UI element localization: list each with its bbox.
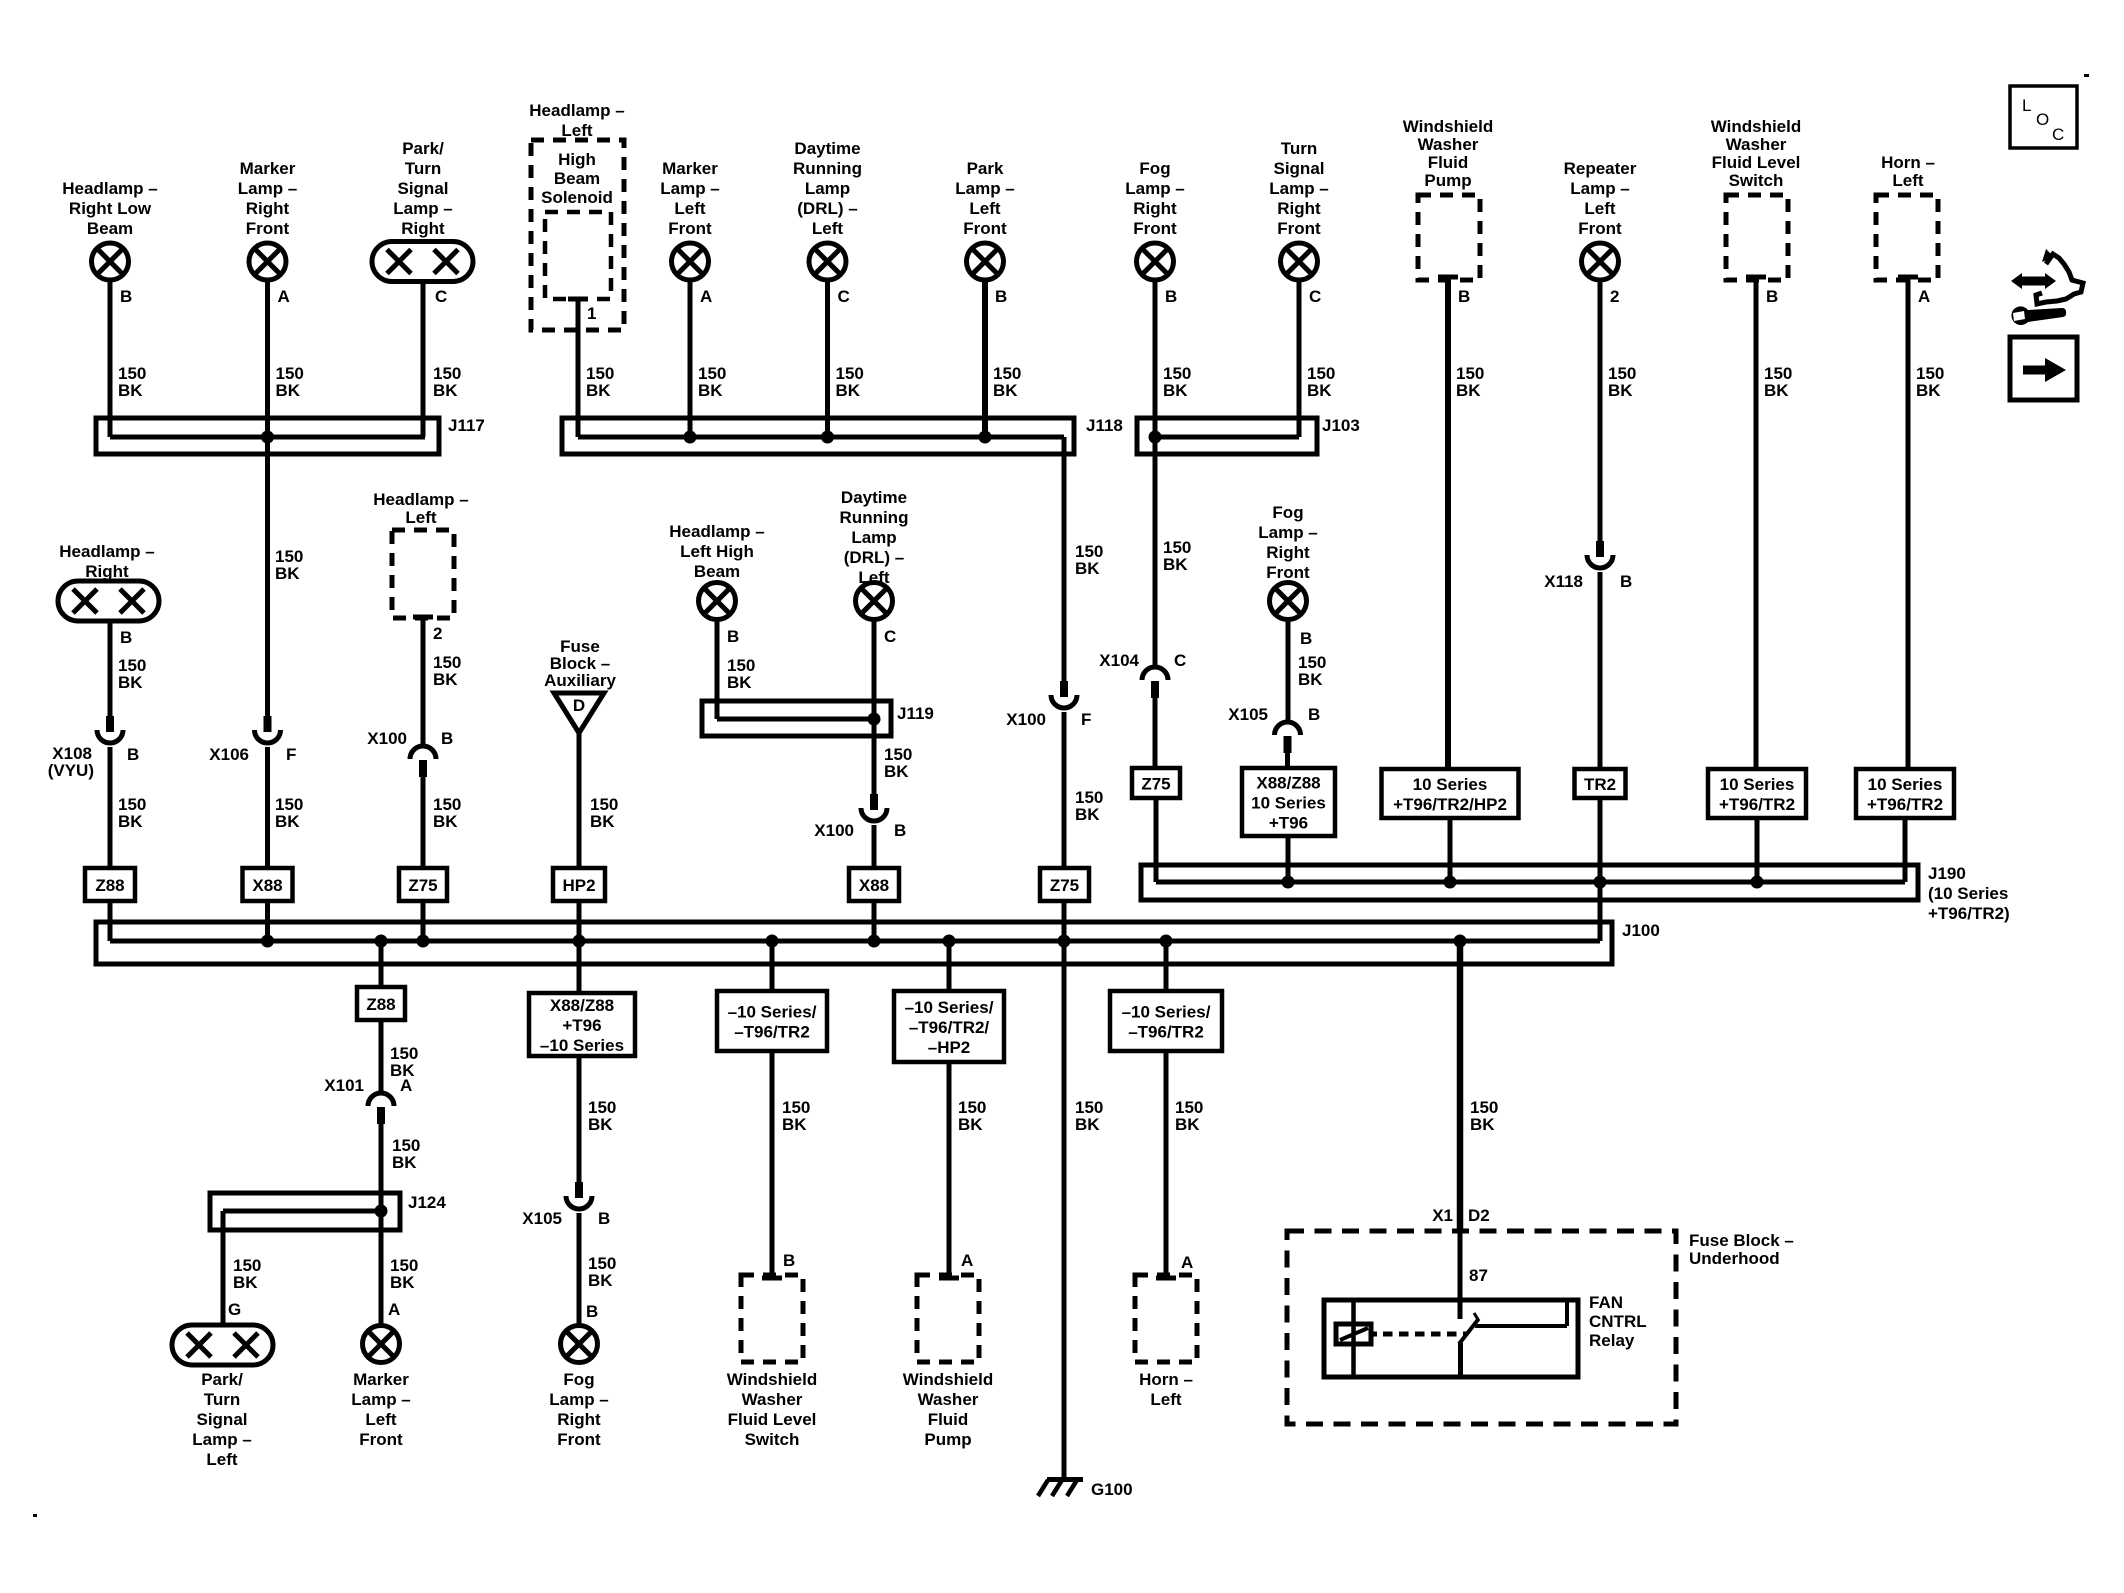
svg-text:D: D bbox=[573, 696, 585, 715]
wire J118 to X100 F bbox=[1062, 437, 1067, 681]
svg-text:C: C bbox=[1309, 287, 1321, 306]
svg-text:Right: Right bbox=[85, 562, 129, 581]
wire Washer Level Switch to 10 Series box bbox=[1754, 277, 1759, 769]
junction J124 bbox=[375, 1205, 388, 1218]
svg-text:BK: BK bbox=[1075, 1115, 1100, 1134]
label Daytime Running Lamp (DRL) - Left bbox=[840, 488, 909, 587]
component Fuse Block - Underhood bbox=[1287, 1231, 1676, 1424]
svg-text:BK: BK bbox=[1175, 1115, 1200, 1134]
svg-text:BK: BK bbox=[586, 381, 611, 400]
label 150 BK bbox=[118, 795, 146, 831]
label FAN CNTRL Relay bbox=[1589, 1293, 1647, 1350]
label 150 BK bbox=[118, 656, 146, 692]
label Headlamp - Left bbox=[373, 490, 468, 527]
svg-text:B: B bbox=[127, 745, 139, 764]
pin B Headlamp - Right bbox=[120, 628, 132, 647]
svg-text:–10 Series/: –10 Series/ bbox=[1122, 1003, 1211, 1022]
label Fuse Block - Underhood bbox=[1689, 1231, 1794, 1268]
label 150 BK bbox=[1075, 542, 1103, 578]
pin B X118 bbox=[1620, 572, 1632, 591]
wire J100 to box bbox=[577, 941, 582, 993]
svg-text:BK: BK bbox=[1163, 555, 1188, 574]
svg-text:X105: X105 bbox=[522, 1209, 562, 1228]
wire X100 F to Z75 bbox=[1062, 712, 1067, 868]
label X105 bbox=[1228, 705, 1268, 724]
svg-text:Left: Left bbox=[365, 1410, 397, 1429]
svg-text:+T96: +T96 bbox=[1269, 814, 1308, 833]
label 150 BK bbox=[698, 364, 726, 400]
relay dashed link bbox=[1371, 1332, 1466, 1337]
wire X100 to X88 bbox=[872, 825, 877, 868]
svg-text:BK: BK bbox=[782, 1115, 807, 1134]
label 150 BK bbox=[118, 364, 146, 400]
label 150 BK bbox=[433, 653, 461, 689]
svg-text:Lamp –: Lamp – bbox=[955, 179, 1015, 198]
relay contact 30 line bbox=[1475, 1300, 1567, 1326]
lamp Park/Turn Signal Lamp - Right bbox=[372, 242, 473, 282]
label 150 BK bbox=[588, 1098, 616, 1134]
splice X100 F bbox=[1051, 681, 1077, 708]
svg-text:Lamp –: Lamp – bbox=[1570, 179, 1630, 198]
svg-text:Lamp –: Lamp – bbox=[351, 1390, 411, 1409]
junction J103 bbox=[1149, 431, 1162, 444]
lamp Fog Lamp - Right Front (bottom) bbox=[561, 1326, 598, 1363]
svg-text:X106: X106 bbox=[209, 745, 249, 764]
svg-text:Underhood: Underhood bbox=[1689, 1249, 1780, 1268]
svg-text:A: A bbox=[1181, 1253, 1193, 1272]
svg-text:Beam: Beam bbox=[694, 562, 740, 581]
wire box to pump bbox=[947, 1062, 952, 1278]
svg-text:–T96/TR2: –T96/TR2 bbox=[734, 1023, 810, 1042]
pin B bbox=[995, 287, 1007, 306]
lamp Repeater Lamp - Left Front bbox=[1582, 243, 1619, 280]
svg-text:(VYU): (VYU) bbox=[48, 761, 94, 780]
svg-text:B: B bbox=[894, 821, 906, 840]
svg-text:BK: BK bbox=[1608, 381, 1633, 400]
label 150 BK bbox=[390, 1256, 418, 1292]
wire J117 to X106 bbox=[265, 454, 270, 716]
lamp Park Lamp - Left Front bbox=[967, 243, 1004, 280]
label 150 BK bbox=[433, 364, 461, 400]
svg-text:Marker: Marker bbox=[662, 159, 718, 178]
svg-text:BK: BK bbox=[275, 564, 300, 583]
pin B bbox=[894, 821, 906, 840]
svg-text:2: 2 bbox=[433, 624, 442, 643]
component Fuse Block - Auxiliary triangle bbox=[554, 693, 604, 733]
label 150 BK bbox=[1608, 364, 1636, 400]
svg-text:BK: BK bbox=[1916, 381, 1941, 400]
icon car direction bbox=[2011, 249, 2083, 325]
pin C bbox=[838, 287, 850, 306]
splice X101 bbox=[368, 1093, 394, 1124]
svg-text:A: A bbox=[961, 1251, 973, 1270]
svg-text:X101: X101 bbox=[324, 1076, 364, 1095]
label 150 BK bbox=[1470, 1098, 1498, 1134]
svg-text:Repeater: Repeater bbox=[1564, 159, 1637, 178]
label Repeater Lamp – Left Front bbox=[1564, 159, 1637, 238]
junction J118 c bbox=[979, 431, 992, 444]
svg-text:BK: BK bbox=[1470, 1115, 1495, 1134]
svg-text:Front: Front bbox=[1578, 219, 1622, 238]
connector TR2 bbox=[1575, 769, 1626, 798]
wire J100 to box bbox=[770, 941, 775, 991]
svg-text:D2: D2 bbox=[1468, 1206, 1490, 1225]
splice X105 (lower) bbox=[566, 1182, 592, 1209]
svg-text:(10 Series: (10 Series bbox=[1928, 884, 2008, 903]
svg-text:Lamp –: Lamp – bbox=[1269, 179, 1329, 198]
svg-text:BK: BK bbox=[1298, 670, 1323, 689]
svg-text:TR2: TR2 bbox=[1584, 775, 1616, 794]
svg-text:BK: BK bbox=[276, 381, 301, 400]
bus J103 bbox=[1137, 416, 1360, 454]
svg-text:Lamp –: Lamp – bbox=[549, 1390, 609, 1409]
pin A bbox=[700, 287, 712, 306]
wire High Beam to J119 bbox=[715, 620, 720, 719]
pin C bbox=[1309, 287, 1321, 306]
svg-text:Left High: Left High bbox=[680, 542, 754, 561]
label 150 BK bbox=[392, 1136, 420, 1172]
svg-text:G100: G100 bbox=[1091, 1480, 1133, 1499]
svg-text:Washer: Washer bbox=[742, 1390, 803, 1409]
svg-text:Switch: Switch bbox=[745, 1430, 800, 1449]
wire X118 to TR2 bbox=[1598, 572, 1603, 769]
svg-text:O: O bbox=[2036, 110, 2049, 129]
connector X88/Z88 10 Series +T96 bbox=[1242, 768, 1335, 836]
wire box to X105 bbox=[577, 1056, 582, 1182]
svg-text:–T96/TR2: –T96/TR2 bbox=[1128, 1023, 1204, 1042]
svg-text:Right: Right bbox=[401, 219, 445, 238]
lamp Fog Lamp - Right Front (2) bbox=[1270, 583, 1307, 620]
junction J119 bbox=[868, 713, 881, 726]
label 150 BK bbox=[836, 364, 864, 400]
svg-text:C: C bbox=[435, 287, 447, 306]
wire X104 to Z75 bbox=[1153, 698, 1158, 768]
svg-text:Headlamp –: Headlamp – bbox=[669, 522, 764, 541]
label Turn Signal Lamp – Right Front bbox=[1269, 139, 1329, 238]
svg-text:X1: X1 bbox=[1432, 1206, 1453, 1225]
svg-text:+T96: +T96 bbox=[562, 1016, 601, 1035]
icon speck 2 bbox=[33, 1514, 37, 1517]
svg-text:Turn: Turn bbox=[204, 1390, 241, 1409]
svg-text:B: B bbox=[1308, 705, 1320, 724]
svg-text:Windshield: Windshield bbox=[727, 1370, 818, 1389]
pin B bbox=[1300, 629, 1312, 648]
junction J100 bbox=[375, 935, 388, 948]
label 150 BK bbox=[782, 1098, 810, 1134]
svg-text:Switch: Switch bbox=[1729, 171, 1784, 190]
svg-text:Front: Front bbox=[1266, 563, 1310, 582]
svg-text:BK: BK bbox=[233, 1273, 258, 1292]
pin 2 Headlamp - Left bbox=[413, 617, 442, 643]
svg-text:Signal: Signal bbox=[1273, 159, 1324, 178]
component Windshield Washer Fluid Pump (bottom) bbox=[917, 1275, 979, 1362]
svg-text:Z75: Z75 bbox=[1050, 876, 1079, 895]
pin 1 High Beam Solenoid bbox=[568, 299, 596, 323]
svg-text:Beam: Beam bbox=[554, 169, 600, 188]
svg-text:B: B bbox=[995, 287, 1007, 306]
ground G100 bbox=[1038, 1480, 1133, 1500]
label Marker Lamp – Right Front bbox=[238, 159, 298, 238]
component High Beam Solenoid inner box bbox=[545, 212, 611, 299]
svg-text:Relay: Relay bbox=[1589, 1331, 1635, 1350]
svg-text:B: B bbox=[1300, 629, 1312, 648]
svg-text:Headlamp –: Headlamp – bbox=[59, 542, 154, 561]
connector -10 Series/-T96/TR2 (2) bbox=[1110, 991, 1222, 1051]
svg-text:Headlamp –: Headlamp – bbox=[62, 179, 157, 198]
svg-text:BK: BK bbox=[1764, 381, 1789, 400]
svg-text:Fluid Level: Fluid Level bbox=[728, 1410, 817, 1429]
label 150 BK bbox=[275, 547, 303, 583]
wire J100 to G100 bbox=[1062, 941, 1067, 1480]
svg-text:CNTRL: CNTRL bbox=[1589, 1312, 1647, 1331]
connector 10 Series +T96/TR2 bbox=[1708, 769, 1806, 818]
svg-text:+T96/TR2: +T96/TR2 bbox=[1719, 795, 1795, 814]
label Park/Turn Signal Lamp - Left bbox=[192, 1370, 252, 1469]
wire J100 to Z88 bbox=[379, 941, 384, 987]
svg-text:Left: Left bbox=[674, 199, 706, 218]
svg-text:Beam: Beam bbox=[87, 219, 133, 238]
junction J118 a bbox=[684, 431, 697, 444]
svg-text:Washer: Washer bbox=[1726, 135, 1787, 154]
wire box to J190 bbox=[1903, 818, 1908, 882]
connector Z75 (3) bbox=[1132, 768, 1180, 798]
pin 2 bbox=[1610, 287, 1619, 306]
svg-text:Right: Right bbox=[1277, 199, 1321, 218]
svg-text:FAN: FAN bbox=[1589, 1293, 1623, 1312]
wire Z88 to X101 bbox=[379, 1020, 384, 1093]
label 150 BK bbox=[884, 745, 912, 781]
pin X1 bbox=[1432, 1206, 1453, 1225]
svg-text:BK: BK bbox=[698, 381, 723, 400]
label 150 BK bbox=[233, 1256, 261, 1292]
svg-text:L: L bbox=[2022, 96, 2031, 115]
svg-text:Park: Park bbox=[967, 159, 1004, 178]
label X100 bbox=[367, 729, 407, 748]
svg-text:BK: BK bbox=[118, 673, 143, 692]
wire Repeater Lamp to X118 bbox=[1598, 280, 1603, 541]
svg-text:Horn –: Horn – bbox=[1881, 153, 1935, 172]
svg-text:Right Low: Right Low bbox=[69, 199, 152, 218]
lamp Marker Lamp - Left Front bbox=[672, 243, 709, 280]
splice X100 B bbox=[410, 746, 436, 777]
svg-text:Washer: Washer bbox=[1418, 135, 1479, 154]
wire Fog Lamp Right Front through J103 bbox=[1153, 280, 1158, 667]
pin B bbox=[1165, 287, 1177, 306]
svg-text:B: B bbox=[1458, 287, 1470, 306]
label 150 BK bbox=[1175, 1098, 1203, 1134]
svg-text:B: B bbox=[120, 287, 132, 306]
svg-text:Front: Front bbox=[963, 219, 1007, 238]
svg-text:B: B bbox=[586, 1302, 598, 1321]
svg-text:X88/Z88: X88/Z88 bbox=[1256, 774, 1320, 793]
lamp Headlamp - Left High Beam bbox=[699, 583, 736, 620]
svg-text:Left: Left bbox=[1892, 171, 1924, 190]
splice X100 (DRL) bbox=[861, 794, 887, 821]
pin G bbox=[228, 1300, 241, 1319]
label Headlamp - Left bbox=[529, 101, 624, 140]
svg-text:BK: BK bbox=[433, 670, 458, 689]
bus J124 bbox=[210, 1193, 446, 1230]
svg-text:Fog: Fog bbox=[1272, 503, 1303, 522]
label 150 BK bbox=[275, 795, 303, 831]
svg-text:Turn: Turn bbox=[405, 159, 442, 178]
svg-text:Marker: Marker bbox=[240, 159, 296, 178]
wire J124 to Park/Turn lamp bbox=[221, 1211, 226, 1325]
svg-text:Front: Front bbox=[359, 1430, 403, 1449]
svg-text:BK: BK bbox=[588, 1115, 613, 1134]
svg-text:Right: Right bbox=[1266, 543, 1310, 562]
svg-text:Fog: Fog bbox=[1139, 159, 1170, 178]
svg-text:BK: BK bbox=[993, 381, 1018, 400]
label 150 BK bbox=[276, 364, 304, 400]
label Fuse Block - Auxiliary bbox=[544, 637, 616, 690]
svg-text:BK: BK bbox=[1075, 805, 1100, 824]
relay switch pivot bbox=[1458, 1343, 1463, 1377]
connector X88 (2) bbox=[849, 868, 899, 901]
svg-text:BK: BK bbox=[433, 812, 458, 831]
bus J118 bbox=[562, 416, 1123, 454]
label Windshield Washer Fluid Pump bbox=[1403, 117, 1494, 190]
svg-text:X88: X88 bbox=[859, 876, 889, 895]
wire Z75 (2) to J100 bbox=[1062, 901, 1067, 941]
label 150 BK bbox=[586, 364, 614, 400]
splice X104 bbox=[1142, 667, 1168, 698]
svg-text:Front: Front bbox=[1277, 219, 1321, 238]
svg-text:Lamp –: Lamp – bbox=[238, 179, 298, 198]
relay switch blade bbox=[1459, 1313, 1479, 1344]
svg-text:–10 Series/: –10 Series/ bbox=[728, 1003, 817, 1022]
svg-text:Turn: Turn bbox=[1281, 139, 1318, 158]
svg-text:C: C bbox=[1174, 651, 1186, 670]
label 150 BK bbox=[1916, 364, 1944, 400]
label 150 BK bbox=[1764, 364, 1792, 400]
svg-text:X105: X105 bbox=[1228, 705, 1268, 724]
wire Headlamp Left to X100 bbox=[421, 617, 426, 746]
lamp Daytime Running Lamp (DRL) - Left bbox=[809, 243, 846, 280]
wire Fog Lamp to X105 bbox=[1286, 620, 1291, 722]
svg-text:Headlamp –: Headlamp – bbox=[373, 490, 468, 509]
svg-text:–T96/TR2/: –T96/TR2/ bbox=[909, 1018, 990, 1037]
svg-text:87: 87 bbox=[1469, 1266, 1488, 1285]
svg-text:X118: X118 bbox=[1544, 572, 1583, 591]
svg-text:Signal: Signal bbox=[397, 179, 448, 198]
wire J100 to box bbox=[1164, 941, 1169, 991]
junction J100 bbox=[868, 935, 881, 948]
svg-text:BK: BK bbox=[727, 673, 752, 692]
label 150 BK bbox=[1456, 364, 1484, 400]
svg-text:BK: BK bbox=[118, 812, 143, 831]
bus J190 bbox=[1141, 864, 2010, 923]
junction J100 bbox=[943, 935, 956, 948]
svg-text:Left: Left bbox=[969, 199, 1001, 218]
component Horn - Left (bottom) bbox=[1135, 1275, 1197, 1362]
svg-text:C: C bbox=[884, 627, 896, 646]
svg-text:X100: X100 bbox=[367, 729, 407, 748]
connector HP2 bbox=[553, 868, 605, 901]
splice X108 bbox=[97, 716, 123, 743]
wire X105 to X88/Z88 box bbox=[1285, 753, 1290, 768]
svg-text:Windshield: Windshield bbox=[1403, 117, 1494, 136]
svg-text:Running: Running bbox=[793, 159, 862, 178]
svg-text:+T96/TR2: +T96/TR2 bbox=[1867, 795, 1943, 814]
pin A bbox=[388, 1300, 400, 1319]
label X108 (VYU) bbox=[48, 744, 94, 780]
component Windshield Washer Fluid Pump box bbox=[1418, 195, 1480, 280]
pin C X104 bbox=[1174, 651, 1186, 670]
junction J100 bbox=[261, 935, 274, 948]
label Marker Lamp – Left Front bbox=[660, 159, 720, 238]
svg-text:+T96/TR2): +T96/TR2) bbox=[1928, 904, 2010, 923]
svg-text:BK: BK bbox=[1456, 381, 1481, 400]
label 150 BK bbox=[727, 656, 755, 692]
relay FAN CNTRL box bbox=[1324, 1300, 1578, 1377]
svg-text:Marker: Marker bbox=[353, 1370, 409, 1389]
svg-text:BK: BK bbox=[390, 1273, 415, 1292]
junction J100 bbox=[1058, 935, 1071, 948]
label Fog Lamp – Right Front bbox=[1125, 159, 1185, 238]
wire DRL to X100 bbox=[872, 620, 877, 794]
label X100 bbox=[814, 821, 854, 840]
svg-text:B: B bbox=[1165, 287, 1177, 306]
svg-text:B: B bbox=[598, 1209, 610, 1228]
svg-text:J103: J103 bbox=[1322, 416, 1360, 435]
connector X88 bbox=[243, 868, 293, 901]
pin B X105 bbox=[598, 1209, 610, 1228]
svg-text:Left: Left bbox=[812, 219, 844, 238]
svg-text:–10 Series/: –10 Series/ bbox=[905, 998, 994, 1017]
svg-text:B: B bbox=[441, 729, 453, 748]
pin F X100 bbox=[1081, 710, 1091, 729]
pin 87 bbox=[1469, 1266, 1488, 1285]
svg-text:Solenoid: Solenoid bbox=[541, 188, 613, 207]
svg-text:Windshield: Windshield bbox=[903, 1370, 994, 1389]
connector Z88 (lower) bbox=[357, 987, 405, 1020]
component Windshield Washer Fluid Level Switch (bottom) bbox=[741, 1275, 803, 1362]
svg-text:Left: Left bbox=[1584, 199, 1616, 218]
pin B Windshield Washer Fluid Level Switch bbox=[1746, 277, 1778, 306]
svg-text:X104: X104 bbox=[1099, 651, 1139, 670]
pin A Horn - Left bbox=[1898, 277, 1930, 306]
junction J100 bbox=[417, 935, 430, 948]
relay coil bbox=[1336, 1324, 1371, 1344]
svg-text:Left: Left bbox=[1150, 1390, 1182, 1409]
label Marker Lamp - Left Front bbox=[351, 1370, 411, 1449]
svg-text:Z75: Z75 bbox=[408, 876, 437, 895]
svg-text:1: 1 bbox=[587, 304, 596, 323]
svg-text:BK: BK bbox=[958, 1115, 983, 1134]
lamp Daytime Running Lamp (DRL) - Left bbox=[856, 583, 893, 620]
pin B Windshield Washer Fluid Pump bbox=[1438, 277, 1470, 306]
connector 10 Series +T96/TR2/HP2 bbox=[1382, 769, 1519, 818]
svg-text:BK: BK bbox=[118, 381, 143, 400]
svg-text:A: A bbox=[1918, 287, 1930, 306]
pin C bbox=[884, 627, 896, 646]
label Fog Lamp - Right Front bbox=[549, 1370, 609, 1449]
svg-text:Daytime: Daytime bbox=[841, 488, 907, 507]
svg-text:Park/: Park/ bbox=[402, 139, 444, 158]
svg-text:B: B bbox=[1620, 572, 1632, 591]
wire box to J190 bbox=[1755, 818, 1760, 882]
junction J100 bbox=[1160, 935, 1173, 948]
svg-text:Front: Front bbox=[557, 1430, 601, 1449]
wire box to switch bbox=[770, 1051, 775, 1278]
wire Fuse Block Aux to HP2 bbox=[577, 733, 582, 868]
svg-text:A: A bbox=[700, 287, 712, 306]
wire X105 to Fog Lamp bbox=[577, 1213, 582, 1326]
connector -10 Series/-T96/TR2 bbox=[717, 991, 827, 1051]
wire Marker Lamp Left Front to J118 bbox=[688, 280, 693, 437]
wire Z75 to J190 bbox=[1154, 798, 1159, 882]
